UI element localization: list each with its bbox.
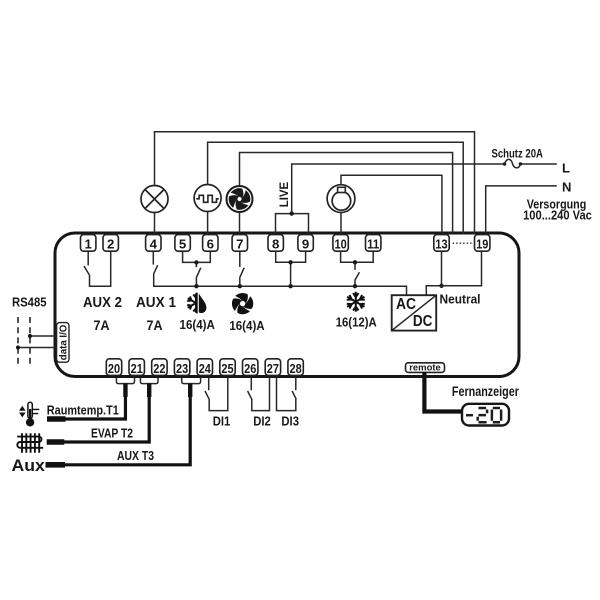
- svg-text:L: L: [562, 161, 570, 176]
- terminal 6: [203, 235, 218, 252]
- svg-text:100...240 Vac: 100...240 Vac: [523, 208, 592, 223]
- svg-text:Fernanzeiger: Fernanzeiger: [452, 384, 520, 399]
- svg-text:26: 26: [244, 361, 256, 376]
- switch AUX2 terminals 1-2: [84, 251, 111, 286]
- svg-text:19: 19: [476, 237, 488, 252]
- svg-text:7A: 7A: [147, 317, 163, 333]
- svg-text:Schutz 20A: Schutz 20A: [492, 147, 544, 161]
- switch AUX1 terminal 4 and common bus: [153, 251, 406, 295]
- svg-text:data I/O: data I/O: [58, 325, 70, 361]
- svg-text:N: N: [562, 180, 571, 195]
- wire terminal 13 to neutral node: [439, 251, 443, 288]
- evaporator coil icon T2: [17, 433, 43, 453]
- svg-text:23: 23: [176, 361, 188, 376]
- svg-text:EVAP T2: EVAP T2: [91, 427, 133, 441]
- terminal 27: [265, 359, 280, 376]
- snowflake icon: [347, 292, 365, 312]
- svg-text:7: 7: [236, 237, 243, 252]
- terminal 26: [243, 359, 258, 376]
- svg-text:7A: 7A: [94, 317, 110, 333]
- terminal 25: [220, 359, 235, 376]
- terminal 28: [288, 359, 303, 376]
- svg-text:8: 8: [272, 237, 279, 252]
- wire defrost heater (top net 2): [208, 142, 464, 234]
- terminal 20: [106, 359, 121, 376]
- svg-text:AUX 2: AUX 2: [83, 294, 122, 311]
- svg-text:AUX T3: AUX T3: [117, 449, 154, 463]
- fan icon top: [227, 186, 253, 212]
- wire lamp to terminal row (top net 1): [155, 132, 475, 234]
- svg-text:LIVE: LIVE: [277, 182, 291, 208]
- probe fork T1 terminals 20-21: [116, 378, 134, 397]
- svg-text:DI3: DI3: [281, 414, 299, 429]
- thermometer icon T1: [19, 402, 39, 426]
- compressor icon: [327, 185, 355, 213]
- wire fan (top net 3): [240, 153, 453, 235]
- wire N to terminal 19: [486, 186, 557, 235]
- terminal 22: [152, 359, 167, 376]
- fuse Schutz 20A: [503, 159, 522, 167]
- svg-text:16(4)A: 16(4)A: [180, 317, 216, 332]
- dotted hidden terminals 14-18: [453, 242, 472, 244]
- switch DI3 terminals 27-28: [277, 378, 297, 411]
- RS485 wire upper: [28, 334, 56, 338]
- svg-text:24: 24: [199, 361, 212, 376]
- remote display -20: [462, 404, 509, 426]
- neutral wire 19 to AC/DC: [426, 251, 481, 295]
- wire LIVE / L line: [276, 164, 557, 234]
- switch fan terminal 7: [238, 251, 245, 288]
- svg-text:Aux: Aux: [12, 456, 46, 475]
- switch DI1 terminals 24-25: [205, 378, 228, 411]
- wire lamp bottom: [154, 213, 156, 235]
- terminal 11: [366, 235, 381, 252]
- terminal 5: [175, 235, 190, 252]
- remote port box: [406, 362, 445, 372]
- probe fork T3 terminals 23-24: [182, 378, 201, 397]
- defrost mode icon (half snowflake + drop): [187, 293, 206, 314]
- svg-text:16(4)A: 16(4)A: [229, 318, 265, 333]
- terminal 23: [174, 359, 189, 376]
- controller main box: [55, 233, 519, 377]
- svg-text:remote: remote: [409, 362, 441, 372]
- svg-text:28: 28: [290, 361, 302, 376]
- probe cable T1: [47, 396, 125, 420]
- svg-text:AUX 1: AUX 1: [136, 294, 176, 311]
- svg-text:6: 6: [207, 237, 214, 252]
- defrost heater icon: [194, 185, 221, 212]
- wire fan bottom: [239, 213, 241, 235]
- probe cable T2: [47, 396, 150, 443]
- svg-text:20: 20: [108, 361, 120, 376]
- svg-text:5: 5: [179, 237, 186, 252]
- terminal 9: [298, 235, 313, 252]
- svg-text:DI1: DI1: [213, 414, 231, 429]
- terminal 4: [146, 235, 161, 252]
- wire compressor bottom: [340, 213, 342, 235]
- terminal 13: [434, 235, 449, 252]
- svg-text:10: 10: [335, 237, 347, 252]
- terminal 21: [129, 359, 144, 376]
- terminal 19: [475, 235, 490, 252]
- lamp icon: [141, 186, 168, 213]
- svg-text:DC: DC: [413, 313, 433, 330]
- RS485 wire lower: [16, 345, 56, 349]
- svg-text:RS485: RS485: [12, 295, 47, 309]
- svg-text:Neutral: Neutral: [440, 292, 481, 307]
- svg-text:25: 25: [221, 361, 233, 376]
- svg-text:1: 1: [85, 237, 92, 252]
- svg-text:11: 11: [367, 237, 379, 252]
- svg-text:13: 13: [435, 237, 447, 252]
- terminal 8: [268, 235, 283, 252]
- svg-text:21: 21: [131, 361, 143, 376]
- fan mode icon: [229, 290, 256, 317]
- data I/O port box: [57, 323, 70, 363]
- label Versorgung 100...240 Vac: [523, 197, 592, 223]
- terminal 2: [103, 235, 118, 252]
- svg-text:Raumtemp.T1: Raumtemp.T1: [47, 404, 119, 418]
- probe fork T2 terminals 21-22: [140, 378, 158, 397]
- probe cable T3: [46, 396, 191, 465]
- svg-text:22: 22: [153, 361, 165, 376]
- remote display cable: [424, 372, 462, 412]
- switch defrost terminals 5-6: [183, 251, 211, 288]
- wire defrost bottom: [207, 212, 209, 235]
- svg-text:DI2: DI2: [253, 414, 271, 429]
- switch compressor terminals 10-11: [341, 251, 374, 288]
- svg-text:2: 2: [107, 237, 114, 252]
- svg-text:9: 9: [302, 237, 309, 252]
- AC/DC converter U1: [392, 295, 437, 330]
- link terminals 8-9 to bus: [276, 251, 306, 288]
- svg-text:4: 4: [150, 237, 158, 252]
- terminal 24: [197, 359, 212, 376]
- switch DI2 terminals 26-27: [248, 378, 270, 411]
- svg-text:27: 27: [267, 361, 279, 376]
- terminal 1: [81, 235, 96, 252]
- svg-text:AC: AC: [396, 296, 416, 313]
- terminal 7: [232, 235, 247, 252]
- svg-text:16(12)A: 16(12)A: [336, 315, 377, 330]
- terminal 10: [333, 235, 348, 252]
- wire compressor to terminal 13: [341, 175, 442, 235]
- RS485 dashed bus lines: [18, 317, 30, 366]
